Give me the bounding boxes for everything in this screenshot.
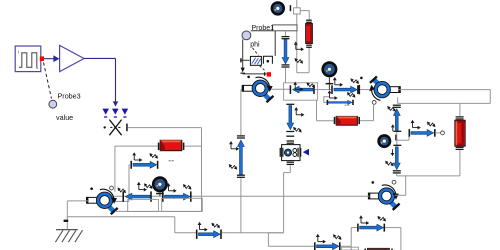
- red brick pipe B4: [336, 116, 357, 125]
- wire R2 to bottom line: [397, 150, 460, 176]
- sensor at H2 right: [427, 122, 435, 128]
- wire L1 port down to brick B4: [317, 100, 334, 120]
- pump P3: [368, 185, 400, 210]
- wire P1b to junction: [222, 232, 284, 234]
- pipe H2 (horizontal, right arrow): [409, 129, 436, 137]
- label Probe3: [58, 91, 81, 100]
- small box at bottom: [342, 247, 359, 250]
- sensor at P1b right: [212, 223, 220, 229]
- signal connector triangles above valve: [102, 109, 128, 118]
- sensor at BP0 right: [150, 153, 158, 159]
- flywheel J1: [271, 1, 285, 15]
- wire P2b right down: [385, 228, 401, 250]
- probe indicator circle Probe3: [49, 100, 57, 108]
- bypass pipe (thin right arrow): [327, 100, 354, 105]
- dashed line sensor to red connector: [260, 66, 267, 72]
- junction wire to pipe H2: [397, 134, 409, 141]
- label Probe1: [252, 25, 275, 32]
- pipe R2h (horizontal, right arrow): [331, 85, 359, 94]
- tick at probe wire end: [241, 73, 246, 74]
- connector circle near P4: [110, 186, 114, 190]
- pump P1: [242, 77, 274, 102]
- stub and circle at H2 outlet: [436, 131, 445, 135]
- flange top of pipe U1: [393, 105, 401, 108]
- pump P2 (mirrored): [369, 77, 401, 101]
- wire instrument down: [284, 165, 291, 233]
- bounding box of pipe L2: [128, 199, 159, 211]
- sensor at D2 bottom: [385, 161, 393, 167]
- shaft tick near J3: [395, 135, 396, 141]
- pipe U1 (vertical, up arrow): [393, 109, 400, 130]
- signal wire Pulse1 to Gain1: [44, 55, 59, 62]
- wire Probe1 box to pipe: [285, 31, 287, 36]
- sensor at P3b right: [333, 234, 341, 240]
- flange top of pipe MV: [237, 135, 245, 138]
- flange top of R1: [306, 20, 312, 23]
- flange bottom of R1: [306, 45, 312, 48]
- pipe R3h (horizontal, right arrow): [162, 191, 192, 201]
- svg-text:phi: phi: [250, 42, 260, 49]
- flange bottom of pipe MV: [237, 175, 245, 178]
- wire BP0 to pump P4: [115, 165, 131, 202]
- sensor at L2 left: [137, 182, 147, 192]
- dashed probe line Pulse1 to Probe3: [44, 63, 52, 99]
- sensor at bypass left: [328, 90, 338, 100]
- red pipe R1 (vertical): [306, 24, 313, 44]
- wire P3 outlet up: [395, 176, 406, 195]
- wire D1 to valve box: [285, 68, 287, 83]
- dashed line phi to sensor: [253, 48, 259, 56]
- sensor at MV bottom: [229, 164, 237, 170]
- flange bottom of red pipe R2: [456, 147, 464, 150]
- flange left of brick B4: [334, 117, 336, 124]
- sensor near P4 outlet: [118, 188, 126, 194]
- red brick pipe B3 (bottom edge): [367, 248, 389, 250]
- svg-text:Probe3: Probe3: [58, 91, 81, 100]
- flange bottom of pipe D1: [282, 64, 290, 67]
- sensor at L1 right: [307, 82, 315, 88]
- anchor marker: [64, 220, 69, 222]
- flange top of red pipe R2: [456, 116, 464, 119]
- pipe L2 (horizontal, left arrow): [122, 191, 151, 201]
- signal wire Gain1 to valve: [84, 58, 118, 106]
- wire to pump P2: [360, 89, 372, 91]
- wire B2 right: [184, 145, 201, 147]
- sensor at D3 upper: [294, 107, 304, 117]
- red pipe R2 (vertical): [455, 120, 465, 146]
- sensor at R2h right: [351, 78, 359, 84]
- pipe L1 (horizontal, left arrow): [290, 85, 315, 94]
- gas volume instrument: [280, 140, 302, 165]
- rotation sensor (phi): [240, 56, 272, 65]
- wire brick B4 to P2 port: [360, 104, 374, 121]
- wire valve to node column: [128, 127, 202, 129]
- wire L1 to T-joint: [315, 89, 331, 91]
- wire gearbox to red pipe R1: [300, 11, 309, 20]
- wire probe circle down to pump P1: [241, 40, 267, 76]
- pipe D2 (vertical, down arrow): [393, 147, 400, 170]
- valve V1 (star symbol): [104, 120, 128, 136]
- flange left of brick B3: [364, 249, 366, 250]
- thermal line B: [67, 217, 196, 233]
- sensor at H2 left: [411, 120, 421, 130]
- flywheel J2: [321, 61, 337, 77]
- bounding box of pipe L1: [284, 83, 318, 100]
- output connector (red square) of Pulse1: [40, 56, 44, 61]
- wire junction to pipe P3b: [268, 233, 314, 247]
- wire P3b to pipe P2b: [341, 228, 357, 250]
- sensor left of U1 (up arrow): [391, 124, 395, 131]
- wire R1 bottom to Probe1 box: [297, 31, 309, 73]
- thermal line A: [115, 210, 202, 212]
- pipe MV (vertical, up arrow): [238, 140, 245, 174]
- sensor at P2b right: [378, 216, 386, 222]
- shaft flange of J4: [156, 192, 164, 196]
- flange bottom of pipe U1: [393, 131, 401, 132]
- sensor at bypass right: [347, 92, 355, 98]
- flange right of brick B3: [391, 249, 393, 250]
- pipe BP0 (horizontal, right arrow): [130, 161, 158, 169]
- sensor at BP0 left: [132, 152, 142, 162]
- sensor at R2h left: [333, 77, 343, 87]
- sensor at R3h left: [167, 183, 177, 193]
- connector dot near P2: [360, 77, 363, 80]
- sensor at D1 upper: [294, 42, 304, 52]
- connector dot near P1: [247, 76, 250, 79]
- sensor left of D2 (down arrow): [391, 149, 395, 156]
- sensor at L2 right: [144, 183, 152, 189]
- sensor at D1 lower: [295, 58, 303, 64]
- red brick pipe B2: [160, 140, 182, 150]
- wire to bypass pipe: [324, 97, 329, 103]
- wire MV down to bottom line: [240, 178, 242, 232]
- pulse source block Pulse1: [15, 46, 41, 72]
- wire from top edge: [296, 0, 298, 8]
- wire P2 outlet loop right: [398, 90, 491, 104]
- pipe P3b (horizontal, right arrow): [314, 242, 341, 250]
- pump P4: [86, 189, 118, 214]
- probe indicator circle Probe1: [242, 31, 251, 40]
- sensor at R3h right: [183, 184, 191, 190]
- sensor at D3 lower: [293, 127, 301, 133]
- connector circle near P2: [372, 101, 376, 105]
- sensor at L1 left: [293, 82, 303, 92]
- wire P2 loop to red pipe R2: [459, 103, 461, 116]
- flange right of brick B2: [183, 143, 185, 150]
- flange top of pipe D1: [282, 36, 290, 39]
- wire Probe1 to rotation sensor: [274, 31, 276, 56]
- inlet flange of pump P2: [359, 85, 361, 94]
- wire B2 left: [115, 146, 158, 192]
- tiny label dp at bypass: [345, 105, 350, 106]
- tiny label dp: [169, 160, 174, 161]
- flange bottom of pipe D2: [393, 170, 401, 173]
- connector circle near P3: [392, 180, 396, 184]
- main pipe line: [113, 195, 369, 197]
- wire P1 outlet to pipe L1: [272, 88, 290, 90]
- flange right of brick B4: [358, 117, 360, 124]
- svg-text:value: value: [56, 113, 73, 122]
- bounding box of pipe R3h: [162, 198, 203, 211]
- node column x=201.5: [201, 128, 203, 212]
- gain block Gain1: [60, 45, 84, 71]
- speed connector (red square) of P1: [267, 72, 271, 76]
- sensor at P3b left: [316, 234, 326, 244]
- sensor at P2b left: [359, 215, 369, 225]
- sensor at P1b left: [198, 222, 208, 232]
- ground symbol: [55, 230, 82, 243]
- wire Probe1 box to probe circle: [251, 30, 273, 32]
- gearbox box: [294, 8, 301, 14]
- flywheel J4: [152, 176, 168, 192]
- shaft flange of J2: [326, 77, 334, 89]
- Probe1 box: [273, 25, 297, 31]
- label phi: [250, 42, 260, 49]
- wire D2 to bottom node: [396, 173, 398, 176]
- flange left of brick B2: [158, 143, 160, 150]
- sensor above U1: [387, 106, 395, 112]
- connector dot near P4: [90, 187, 93, 190]
- node wire U1 to D2: [396, 132, 398, 145]
- pipe P1b (horizontal, right arrow): [196, 230, 222, 239]
- signal triangle at instrument: [303, 149, 309, 156]
- flange top of pipe D2: [393, 145, 401, 146]
- connector dot near P3: [372, 181, 375, 184]
- wire P4 inlet left: [67, 201, 88, 230]
- label value: [56, 113, 73, 122]
- pipe D1 (vertical, down arrow): [282, 40, 289, 64]
- flywheel J3: [377, 134, 391, 148]
- shaft flange of J1: [290, 5, 292, 11]
- wire gearbox to Probe1 box: [296, 14, 298, 25]
- pipe P2b (horizontal, right arrow): [357, 224, 385, 232]
- pipe D3 (vertical, down arrow): [286, 104, 294, 137]
- wire pump P1 inlet down: [240, 89, 242, 135]
- sensor at MV top: [229, 141, 239, 151]
